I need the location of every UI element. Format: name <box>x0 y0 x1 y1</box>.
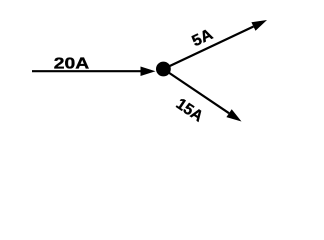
svg-text:20A: 20A <box>54 56 89 73</box>
